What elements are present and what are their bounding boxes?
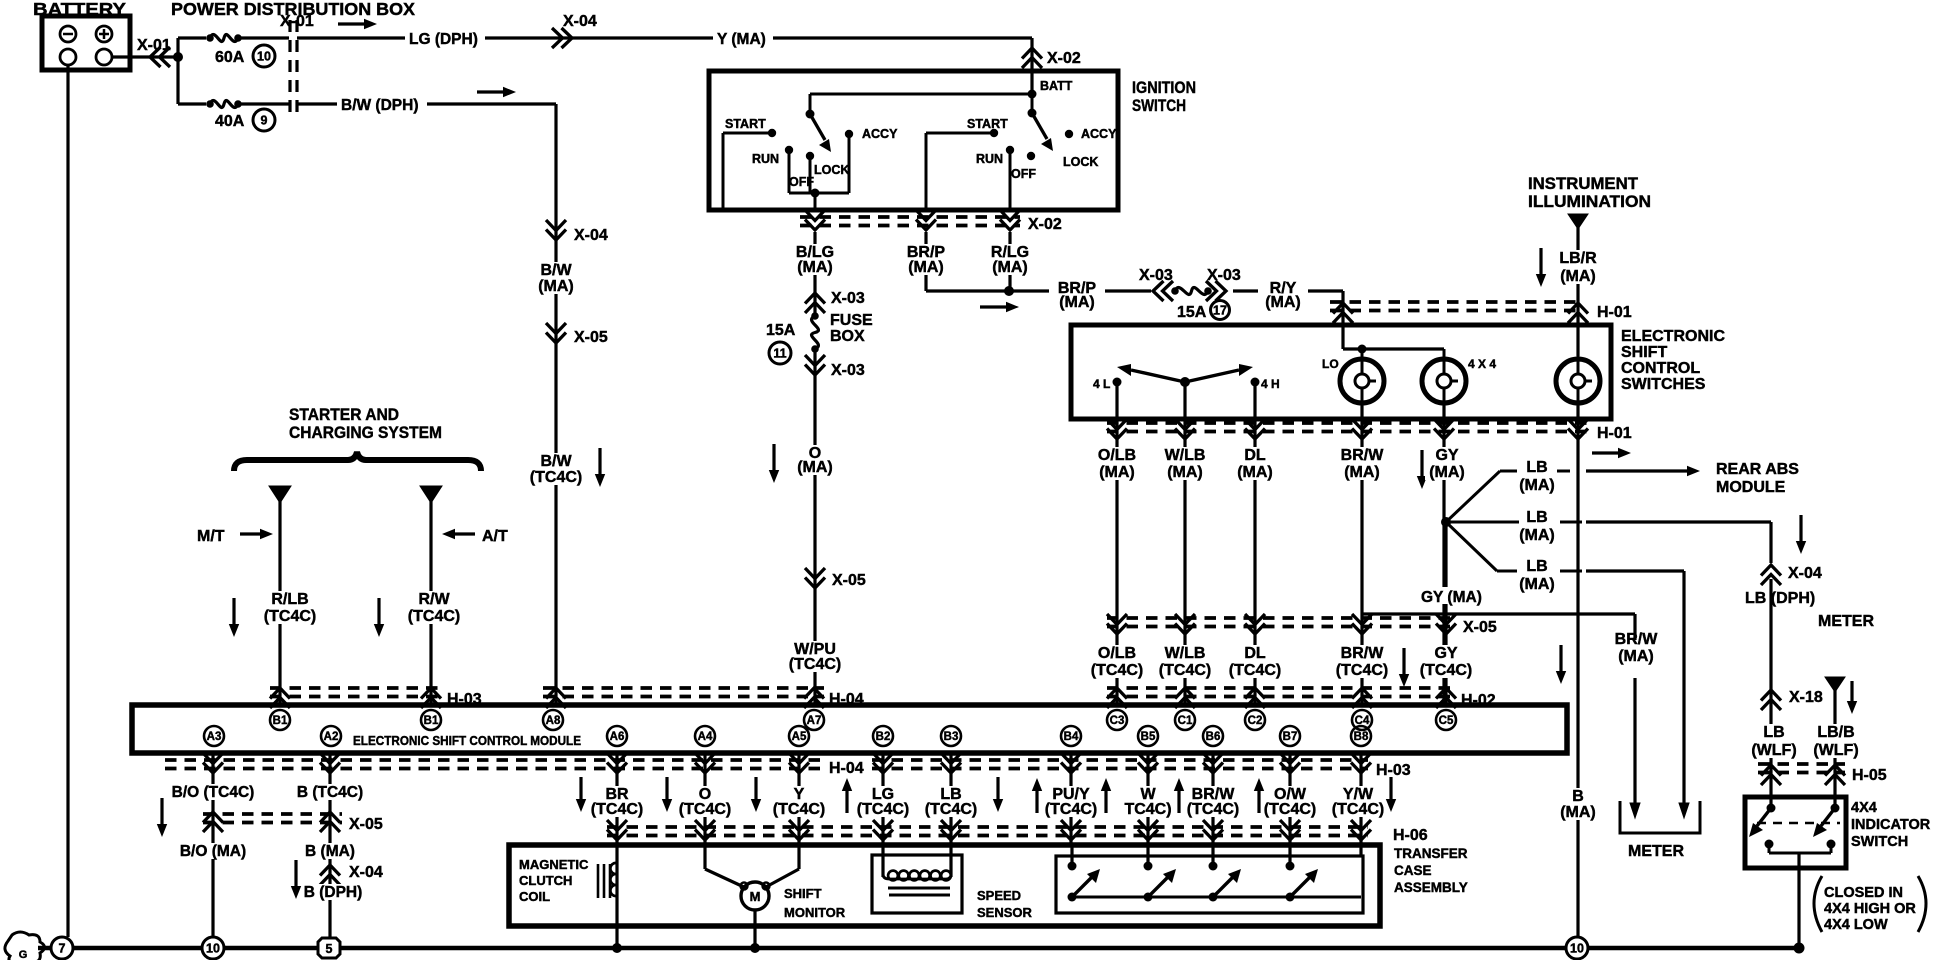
svg-text:A7: A7 xyxy=(807,715,822,727)
wire W column xyxy=(1146,753,1149,845)
flow arrow down right of LB corner xyxy=(1796,515,1806,554)
svg-text:G: G xyxy=(19,949,28,960)
flow arrow right (top) xyxy=(338,19,377,29)
wire GY column xyxy=(1442,419,1445,705)
svg-text:X-03: X-03 xyxy=(831,290,865,307)
svg-text:BOX: BOX xyxy=(830,328,865,345)
svg-text:START: START xyxy=(725,117,766,131)
svg-text:H-01: H-01 xyxy=(1597,425,1632,442)
svg-text:X-02: X-02 xyxy=(1028,216,1062,233)
svg-text:(WLF): (WLF) xyxy=(1813,742,1858,759)
svg-text:RUN: RUN xyxy=(976,152,1003,166)
svg-text:OFF: OFF xyxy=(1011,167,1036,181)
connector X-03 chevron right xyxy=(1206,281,1226,301)
connector X-05 chevron xyxy=(1245,614,1265,634)
wire battery positive to junction (X-01) xyxy=(112,55,178,58)
flow arrow right near B wire top xyxy=(1592,448,1631,458)
junction dot battery feed xyxy=(173,52,183,62)
wire LB to rear ABS module with arrow xyxy=(1586,466,1700,476)
svg-text:(TC4C): (TC4C) xyxy=(1187,801,1239,818)
wire W/LB column xyxy=(1183,419,1186,705)
indicator feed triangle xyxy=(1825,677,1845,692)
svg-text:ACCY: ACCY xyxy=(862,127,898,141)
connector H-04 chevron (below module) xyxy=(203,753,223,773)
fuse 15A (17) xyxy=(1171,287,1179,295)
module pin A5 xyxy=(789,726,809,746)
label LB (DPH) xyxy=(1741,586,1819,606)
module pin A6 xyxy=(607,726,627,746)
connector H-02 chevron xyxy=(1175,688,1195,708)
module pin B4 xyxy=(1061,726,1081,746)
svg-text:X-05: X-05 xyxy=(574,329,608,346)
module pin C4 xyxy=(1352,710,1372,730)
indicator switch right contact upper xyxy=(1831,804,1840,813)
svg-text:(TC4C): (TC4C) xyxy=(1159,662,1211,679)
svg-text:(MA): (MA) xyxy=(908,259,944,276)
module pin B5 xyxy=(1138,726,1158,746)
label LB (TC4C) xyxy=(923,786,979,817)
label O/W (TC4C) xyxy=(1262,786,1318,817)
svg-text:10: 10 xyxy=(206,942,220,956)
connector H-06 chevron xyxy=(1351,820,1371,840)
ground symbol G xyxy=(5,932,45,962)
svg-text:B/O (MA): B/O (MA) xyxy=(180,843,246,860)
flow arrows below module xyxy=(576,777,586,812)
label BR/P (MA) 2nd xyxy=(1049,280,1105,310)
wire B/W (DPH) drop xyxy=(554,104,557,705)
connector X-05 chevron on B/W xyxy=(546,323,566,343)
wire START1 to box edge xyxy=(723,132,772,135)
svg-text:H-03: H-03 xyxy=(1376,762,1411,779)
connector H-06 chevron xyxy=(1138,820,1158,840)
svg-text:B1: B1 xyxy=(424,715,439,727)
label B (MA) xyxy=(1555,788,1601,820)
svg-text:H-04: H-04 xyxy=(829,760,864,777)
svg-text:B7: B7 xyxy=(1283,731,1298,743)
label W TC4C) xyxy=(1120,786,1176,817)
wire GY down from junction xyxy=(1444,522,1447,705)
label B/W (DPH) xyxy=(337,94,427,112)
connector H-04 dashed line (above module) xyxy=(543,686,824,690)
connector X-05 dashed (ground wires) xyxy=(203,812,342,816)
svg-text:C3: C3 xyxy=(1110,715,1125,727)
svg-text:LB: LB xyxy=(1526,509,1547,526)
svg-text:B (MA): B (MA) xyxy=(305,843,355,860)
wire Y column xyxy=(797,753,800,845)
label BR (TC4C) xyxy=(589,786,645,817)
wire LO lamp down xyxy=(1360,403,1363,419)
module pin C2 xyxy=(1245,710,1265,730)
lamp LO xyxy=(1340,359,1384,403)
connector X-05 chevron xyxy=(1352,614,1372,634)
svg-text:X-03: X-03 xyxy=(1139,267,1173,284)
flow arrow down left of GY (MA) xyxy=(1417,450,1427,489)
connector H-02 chevron xyxy=(1352,688,1372,708)
label O/LB (TC4C) xyxy=(1086,645,1148,678)
wire RUN2 to R/LG output xyxy=(1009,150,1012,210)
svg-text:(TC4C): (TC4C) xyxy=(408,608,460,625)
wire BR/P (MA) to fuse xyxy=(1009,289,1151,292)
starter system brace xyxy=(234,452,481,471)
stub dash LB3 xyxy=(1560,570,1582,573)
connector X-04 chevron on B xyxy=(320,865,340,885)
module pin B8 xyxy=(1351,726,1371,746)
svg-text:LOCK: LOCK xyxy=(814,163,849,177)
svg-text:(TC4C): (TC4C) xyxy=(679,801,731,818)
ground circle 7 xyxy=(51,937,73,959)
svg-text:METER: METER xyxy=(1818,613,1874,630)
svg-text:4 L: 4 L xyxy=(1093,377,1110,391)
wire illumination lamp down xyxy=(1576,403,1579,948)
connector X-03 chevron (up) xyxy=(805,293,825,313)
svg-text:B4: B4 xyxy=(1064,731,1079,743)
ground junction dot (shift monitor) xyxy=(750,943,760,953)
svg-text:TRANSFER: TRANSFER xyxy=(1394,846,1468,861)
ground octagon 5 xyxy=(318,938,340,958)
wire illumination lamp feed xyxy=(1577,356,1580,360)
connector H-06 chevron xyxy=(1061,820,1081,840)
junction dot B/LG output xyxy=(811,189,820,198)
svg-text:COIL: COIL xyxy=(519,889,550,904)
fuse 15A (11) xyxy=(811,312,819,320)
ignition switch 2 contact START xyxy=(990,129,998,137)
label GY (TC4C) xyxy=(1416,645,1476,678)
svg-text:C2: C2 xyxy=(1248,715,1263,727)
module pin A8 xyxy=(543,710,563,730)
speed sensor core lines xyxy=(888,887,950,890)
transfer case assembly box xyxy=(509,845,1380,926)
connector H-06 chevron xyxy=(1280,820,1300,840)
connector H-03 chevron (below module) xyxy=(873,753,893,773)
module pin B2 xyxy=(873,726,893,746)
svg-text:FUSE: FUSE xyxy=(830,312,873,329)
ignition switch 1 contact OFF xyxy=(806,152,814,160)
svg-text:(MA): (MA) xyxy=(1519,576,1555,593)
ground circle 10 (left) xyxy=(202,937,224,959)
svg-text:B (TC4C): B (TC4C) xyxy=(297,784,363,801)
wire PU/Y column xyxy=(1069,753,1072,845)
connector H-03 chevron (below module) xyxy=(941,753,961,773)
label B/W (TC4C) xyxy=(526,453,586,485)
svg-text:ASSEMBLY: ASSEMBLY xyxy=(1394,880,1468,895)
wire R/LG drop xyxy=(1008,232,1011,291)
label O/LB (MA) xyxy=(1091,447,1143,480)
svg-text:Y (MA): Y (MA) xyxy=(717,31,766,48)
stub dash LB2 xyxy=(1560,521,1582,524)
svg-text:LG (DPH): LG (DPH) xyxy=(409,31,478,48)
connector X-01 double-dash xyxy=(288,20,291,112)
label B (TC4C) xyxy=(295,784,365,800)
fuse rating circle 17 xyxy=(1211,301,1230,320)
svg-text:17: 17 xyxy=(1213,304,1227,318)
flow arrow down right of GY column xyxy=(1556,645,1566,684)
label R/Y (MA) xyxy=(1258,280,1308,310)
instrument illumination source triangle xyxy=(1568,214,1588,229)
transfer case switch 4 xyxy=(1288,845,1291,866)
svg-text:5: 5 xyxy=(326,942,333,956)
connector X-04 chevron on B/W xyxy=(546,220,566,240)
svg-text:7: 7 xyxy=(59,942,66,956)
label BR/W (MA) meter xyxy=(1607,631,1665,664)
svg-text:ELECTRONIC SHIFT CONTROL MODUL: ELECTRONIC SHIFT CONTROL MODULE xyxy=(353,734,581,748)
svg-text:(TC4C): (TC4C) xyxy=(1045,801,1097,818)
svg-text:METER: METER xyxy=(1628,843,1684,860)
module pin C5 xyxy=(1436,710,1456,730)
svg-text:(MA): (MA) xyxy=(1519,527,1555,544)
module pin B1 xyxy=(421,710,441,730)
flow arrow right over B/W xyxy=(477,87,516,97)
wire B column upper xyxy=(328,753,331,948)
svg-text:STARTER AND: STARTER AND xyxy=(289,405,399,424)
connector H-03 chevron (below module) xyxy=(1280,753,1300,773)
connector H-03 chevron (below module) xyxy=(1061,753,1081,773)
wire BR/W to meter horizontal xyxy=(1362,612,1635,615)
svg-text:X-01: X-01 xyxy=(280,13,314,30)
meter wire arrowheads xyxy=(1630,803,1640,818)
svg-text:W/LB: W/LB xyxy=(1165,645,1206,662)
label BR/P (MA) xyxy=(897,244,955,275)
svg-text:B6: B6 xyxy=(1206,731,1221,743)
label B/O (MA) xyxy=(178,843,250,859)
svg-text:IGNITION: IGNITION xyxy=(1132,79,1196,97)
connector H-01 chevron xyxy=(1434,419,1454,439)
svg-text:X-04: X-04 xyxy=(563,13,597,30)
label B/O (TC4C) xyxy=(170,784,256,800)
svg-text:BR/W: BR/W xyxy=(1341,447,1385,464)
svg-text:TC4C): TC4C) xyxy=(1124,801,1171,818)
flow arrow down left of R/LB xyxy=(229,598,239,637)
connector X-05 chevron on O xyxy=(805,568,825,588)
electronic shift control module box xyxy=(132,705,1567,753)
ground junction dot (indicator switch) xyxy=(1794,943,1805,954)
4H contact xyxy=(1251,378,1260,387)
svg-text:ELECTRONIC: ELECTRONIC xyxy=(1621,328,1725,345)
svg-text:SWITCHES: SWITCHES xyxy=(1621,376,1706,393)
ignition switch 2 contact RUN xyxy=(1006,146,1014,154)
wire O (MA) down xyxy=(813,349,816,705)
indicator switch left arm xyxy=(1749,808,1771,837)
svg-text:B: B xyxy=(1572,788,1584,805)
module pin C3 xyxy=(1107,710,1127,730)
svg-text:ACCY: ACCY xyxy=(1081,127,1117,141)
module pin A3 xyxy=(204,726,224,746)
starter feed triangle A/T xyxy=(420,486,442,503)
svg-text:MAGNETIC: MAGNETIC xyxy=(519,857,589,872)
label R/W (TC4C) xyxy=(404,591,464,624)
wire LO lamp feed xyxy=(1361,349,1364,360)
stub dash LB1 xyxy=(1557,470,1570,473)
flow arrow down left of LB/R xyxy=(1536,248,1546,287)
svg-text:LB: LB xyxy=(1763,724,1784,741)
module pin A4 xyxy=(695,726,715,746)
connector H-06 dashed line xyxy=(607,825,1368,829)
connector X-03 chevron left xyxy=(1153,281,1173,301)
svg-text:R/LB: R/LB xyxy=(271,591,308,608)
ignition BATT node xyxy=(1028,90,1037,99)
svg-text:LB/R: LB/R xyxy=(1559,250,1597,267)
ground rail xyxy=(38,946,1799,951)
svg-text:GY: GY xyxy=(1435,447,1458,464)
lamp 4X4 xyxy=(1422,359,1466,403)
module pin B7 xyxy=(1280,726,1300,746)
svg-text:C5: C5 xyxy=(1439,715,1454,727)
svg-text:START: START xyxy=(967,117,1008,131)
module pin A2 xyxy=(321,726,341,746)
label LB/R (MA) xyxy=(1554,250,1602,284)
ground circle 10 (right) xyxy=(1566,937,1588,959)
wire R/W (TC4C) xyxy=(429,499,432,705)
label B (DPH) xyxy=(303,884,365,900)
svg-text:(MA): (MA) xyxy=(797,259,833,276)
svg-text:(TC4C): (TC4C) xyxy=(1332,801,1384,818)
wire LG (DPH) / Y (MA) feed xyxy=(297,36,1032,39)
connector H-06 chevron xyxy=(873,820,893,840)
wire O/W column xyxy=(1288,753,1291,845)
svg-text:GY (MA): GY (MA) xyxy=(1421,589,1482,606)
connector X-04 chevron on Y wire xyxy=(552,28,572,48)
wire BR column xyxy=(615,753,618,845)
svg-text:INSTRUMENT: INSTRUMENT xyxy=(1528,175,1638,193)
ignition switch 2 arm xyxy=(1032,113,1053,151)
svg-text:SENSOR: SENSOR xyxy=(977,905,1033,920)
label DL (MA) xyxy=(1232,447,1278,480)
module pin B6 xyxy=(1203,726,1223,746)
wire DL column xyxy=(1253,419,1256,705)
label O (TC4C) xyxy=(677,786,733,817)
svg-text:(MA): (MA) xyxy=(992,259,1028,276)
wire BR/W column xyxy=(1211,753,1214,845)
svg-text:(TC4C): (TC4C) xyxy=(1264,801,1316,818)
indicator switch right arm xyxy=(1813,808,1835,837)
svg-text:X-18: X-18 xyxy=(1789,689,1823,706)
svg-text:CLUTCH: CLUTCH xyxy=(519,873,572,888)
wire START2 to BR/P output xyxy=(926,132,994,135)
starter feed triangle M/T xyxy=(269,486,291,503)
label B (MA) xyxy=(300,843,360,859)
svg-text:(MA): (MA) xyxy=(1099,464,1135,481)
svg-text:(MA): (MA) xyxy=(1560,268,1596,285)
svg-text:X-04: X-04 xyxy=(574,227,608,244)
connector X-03 chevron (lower) xyxy=(805,355,825,375)
battery negative wire to ground xyxy=(66,65,69,937)
svg-text:(TC4C): (TC4C) xyxy=(1091,662,1143,679)
indicator switch output bus xyxy=(1768,844,1771,853)
wire 4H down xyxy=(1253,382,1256,419)
svg-text:40A: 40A xyxy=(215,113,245,130)
svg-text:4X4: 4X4 xyxy=(1851,800,1877,816)
svg-text:LOCK: LOCK xyxy=(1063,155,1098,169)
svg-text:A6: A6 xyxy=(610,731,625,743)
svg-text:(MA): (MA) xyxy=(1344,464,1380,481)
fuse rating circle 11 xyxy=(769,342,791,364)
label DL (TC4C) xyxy=(1225,645,1285,678)
flow arrow down right of LB/B xyxy=(1847,681,1857,714)
label BR/W (MA) xyxy=(1333,447,1391,480)
flow arrow right below BR/P xyxy=(980,302,1019,312)
wire BATT to left switch pivot xyxy=(810,93,1032,96)
wire Y to shift monitor xyxy=(797,845,800,869)
svg-text:60A: 60A xyxy=(215,49,245,66)
svg-text:SPEED: SPEED xyxy=(977,888,1021,903)
ignition switch box xyxy=(709,71,1118,210)
wire BR/P elbow xyxy=(924,232,927,291)
indicator switch gang dashes xyxy=(1757,822,1840,825)
wire R/Y elbow into switch box xyxy=(1308,289,1343,292)
wire Y/W column xyxy=(1359,753,1362,845)
svg-text:A5: A5 xyxy=(792,731,807,743)
svg-text:B8: B8 xyxy=(1354,731,1369,743)
connector H-04 chevron (below module) xyxy=(695,753,715,773)
svg-text:(MA): (MA) xyxy=(538,278,574,295)
wire B/W (DPH) xyxy=(297,102,556,105)
connector X-05 chevron xyxy=(1175,614,1195,634)
annotation parentheses xyxy=(1814,876,1822,932)
flow arrow down left of B/O xyxy=(157,798,167,837)
wire BR/W meter drop xyxy=(1633,614,1636,640)
svg-text:A/T: A/T xyxy=(482,528,508,545)
svg-text:A4: A4 xyxy=(698,731,713,743)
svg-text:H-06: H-06 xyxy=(1393,827,1428,844)
svg-text:X-05: X-05 xyxy=(349,816,383,833)
wire B/LG output inside box xyxy=(814,193,817,210)
svg-text:W/LB: W/LB xyxy=(1165,447,1206,464)
svg-text:(MA): (MA) xyxy=(1265,294,1301,311)
label O (MA) xyxy=(792,445,838,475)
flow arrow down left of B (DPH) xyxy=(291,860,301,899)
wire RUN/OFF/ACCY bus switch 1 xyxy=(788,150,791,193)
4L contact xyxy=(1113,378,1122,387)
connector H-04 chevron (below module) xyxy=(789,753,809,773)
junction dot LO lamp feed xyxy=(1358,345,1367,354)
GY junction node xyxy=(1441,517,1451,527)
wire GY junction diagonals to LB stubs xyxy=(1446,471,1500,522)
svg-text:H-01: H-01 xyxy=(1597,304,1632,321)
svg-text:4 H: 4 H xyxy=(1261,377,1280,391)
svg-text:9: 9 xyxy=(261,114,268,128)
connector X-05 dashed line (switch group) xyxy=(1107,616,1452,620)
connector H-04/H-03 dashed line (below module) xyxy=(165,758,822,762)
svg-text:(WLF): (WLF) xyxy=(1751,742,1796,759)
flow arrow down left of O (MA) xyxy=(769,444,779,483)
connector H-03 chevron (below module) xyxy=(1203,753,1223,773)
connector H-02 chevron xyxy=(1245,688,1265,708)
svg-text:SWITCH: SWITCH xyxy=(1851,834,1908,850)
module pin B1 xyxy=(270,710,290,730)
connector H-03 chevron (below module) xyxy=(1138,753,1158,773)
ignition switch 2 contact OFF xyxy=(1027,152,1035,160)
wire LB/B (WLF) xyxy=(1833,689,1836,808)
connector H-01 chevron on R/Y xyxy=(1333,303,1353,323)
svg-text:(TC4C): (TC4C) xyxy=(1336,662,1388,679)
svg-text:(TC4C): (TC4C) xyxy=(857,801,909,818)
connector X-04 chevron on LB xyxy=(1761,565,1781,585)
connector H-01 chevron xyxy=(1175,419,1195,439)
fuse 60A xyxy=(206,34,214,42)
svg-text:(TC4C): (TC4C) xyxy=(1420,662,1472,679)
svg-text:LB: LB xyxy=(1526,459,1547,476)
svg-text:B/O (TC4C): B/O (TC4C) xyxy=(172,784,255,801)
ignition switch 1 pivot xyxy=(806,110,815,119)
svg-text:LO: LO xyxy=(1322,357,1339,371)
label Y/W (TC4C) xyxy=(1330,786,1386,817)
ignition switch 1 contact ACCY xyxy=(845,130,853,138)
svg-text:M: M xyxy=(750,889,761,904)
svg-text:INDICATOR: INDICATOR xyxy=(1851,817,1931,833)
svg-text:B (DPH): B (DPH) xyxy=(304,884,363,901)
label R/LB (TC4C) xyxy=(260,591,320,624)
connector H-04 chevron (below module) xyxy=(320,753,340,773)
wire 4X4 lamp down xyxy=(1442,403,1445,419)
